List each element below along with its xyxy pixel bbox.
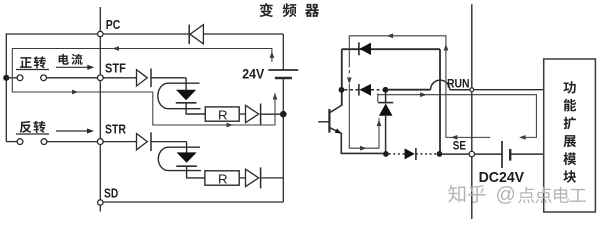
wire U2 cathode to R2 (187, 166, 205, 178)
diode D8 feedback (378, 102, 393, 104)
wire current path upper (12, 49, 275, 126)
node SE (469, 151, 474, 156)
label current (59, 54, 69, 65)
diode D6 clamp top (358, 42, 360, 55)
resistor R1 (205, 107, 239, 121)
wire STR to diode (103, 141, 136, 143)
wire flow dashed segment (348, 64, 350, 77)
optocoupler U1 LED anode (185, 78, 187, 90)
arrow flow left return b (451, 135, 458, 140)
arrow current flow right (56, 66, 89, 68)
wire flow return left segment (446, 136, 490, 138)
label inverter title (260, 3, 274, 17)
wire U1 cathode to R1 (186, 103, 205, 114)
wire output vertical (439, 49, 441, 154)
arrow flow left return a (519, 135, 526, 140)
wire 24V positive rail (282, 34, 284, 70)
transistor Q1 emitter lead (329, 127, 341, 133)
node emitter junction (383, 151, 389, 157)
node STF (97, 75, 103, 81)
wire RUN hop over (430, 80, 449, 90)
arrow flow up from diode (273, 93, 278, 100)
node RUN branch (383, 87, 389, 93)
switch SB1 forward contact a (17, 75, 23, 81)
node STR (97, 139, 103, 145)
node rail junction (280, 111, 287, 118)
wire dotted to diode D9 (389, 153, 405, 155)
switch SB1 forward contact b (41, 75, 47, 81)
diode D2 STF series (137, 70, 148, 86)
wire photo-transistor dash-dot (344, 89, 359, 91)
diode D3 STF return (246, 105, 259, 122)
svg-text:SD: SD (104, 185, 118, 200)
svg-text:STF: STF (105, 60, 126, 75)
arrow flow left on top (113, 46, 120, 51)
wire SD stub (99, 205, 101, 211)
wire forward switch to STF (47, 77, 98, 79)
transistor Q1 bar (328, 109, 330, 133)
arrow flow down (347, 78, 352, 85)
watermark (448, 185, 465, 203)
wire RUN horizontal (388, 89, 430, 91)
battery DC24V plate short (509, 149, 511, 161)
label forward (20, 57, 32, 68)
wire outer left vertical (5, 33, 7, 141)
transistor Q1 base lead (318, 121, 329, 123)
wire diode to RUN node dash-dot (371, 89, 383, 91)
node SE branch (437, 151, 443, 157)
svg-text:24V: 24V (242, 67, 265, 82)
svg-text:R: R (218, 171, 228, 186)
node SD (98, 200, 103, 205)
transistor Q1 collector lead (329, 105, 342, 113)
battery 24V plate long (268, 69, 298, 71)
svg-text:R: R (218, 107, 228, 122)
wire RUN to terminal (450, 89, 470, 91)
arrow flow up to diode (377, 120, 382, 127)
wire STF to diode (103, 77, 136, 79)
arrow flow up to battery (270, 52, 275, 59)
wire diode to rail (261, 177, 284, 179)
wire flow return top (378, 95, 537, 138)
node junction left rail (3, 75, 9, 81)
wire diode to opto U2 (151, 141, 187, 143)
wire collector bus top (342, 48, 440, 50)
wire battery to module (510, 153, 544, 155)
wire diode to emitter line (385, 116, 387, 154)
node PC (98, 31, 103, 36)
wire R1 to diode (239, 113, 245, 115)
svg-text:SE: SE (453, 139, 466, 153)
diode D7 middle (358, 84, 360, 96)
wire module terminal vertical (471, 4, 473, 88)
wire emitter down (341, 133, 383, 154)
wire SD bottom bus (103, 201, 283, 203)
wire diode to opto U1 (151, 77, 186, 79)
wire 24V negative rail (282, 78, 284, 202)
wire reverse switch to STR (47, 141, 98, 143)
diode D1 freewheel (190, 25, 203, 44)
battery 24V plate short (275, 77, 292, 79)
label expansion module (563, 81, 575, 93)
node RUN (470, 88, 474, 92)
diode D4 STR series (137, 134, 148, 150)
wire diode to rail node (261, 113, 284, 115)
wire to forward switch (6, 77, 17, 79)
label reverse (20, 121, 32, 133)
optocoupler U2 loop (158, 147, 201, 170)
wire SE node to terminal (442, 153, 469, 155)
svg-text:PC: PC (106, 17, 121, 32)
arrow flow left top (387, 33, 394, 38)
switch SB2 reverse contact a (17, 139, 23, 145)
module expansion box (544, 59, 596, 212)
wire RUN to module (474, 89, 544, 91)
resistor R2 (205, 171, 239, 185)
svg-text:STR: STR (105, 121, 126, 136)
wire top bus (6, 33, 283, 35)
wire flow diode stub (377, 93, 379, 102)
wire flow loop top (349, 36, 446, 138)
optocoupler U1 loop (158, 83, 201, 109)
wire dotted diode to node (416, 153, 437, 155)
node collector junction (339, 87, 345, 93)
diode D5 STR return (246, 169, 259, 186)
optocoupler U2 LED anode (186, 142, 188, 153)
wire R2 to diode (239, 177, 245, 179)
optocoupler U2 LED (177, 152, 197, 162)
battery DC24V plate long (501, 141, 503, 168)
arrow reverse flow right (56, 130, 88, 132)
svg-text:RUN: RUN (447, 77, 470, 91)
wire collector vertical (341, 49, 343, 105)
arrow flow right lower (227, 123, 234, 128)
wire zener branch vertical (385, 93, 387, 103)
arrow flow right mid (72, 90, 79, 95)
wire flow left vertical (349, 84, 379, 148)
svg-text:@: @ (496, 184, 516, 206)
wire SE to battery (475, 153, 503, 155)
arrow flow up right (444, 44, 449, 51)
diode D9 series output (405, 148, 415, 159)
arrow flow right return (420, 92, 427, 97)
wire left terminal rail (99, 7, 101, 200)
optocoupler U1 LED (176, 90, 196, 100)
wire to reverse switch (6, 141, 17, 143)
switch SB2 reverse contact b (41, 139, 47, 145)
arrow flow right bottom (360, 146, 367, 151)
